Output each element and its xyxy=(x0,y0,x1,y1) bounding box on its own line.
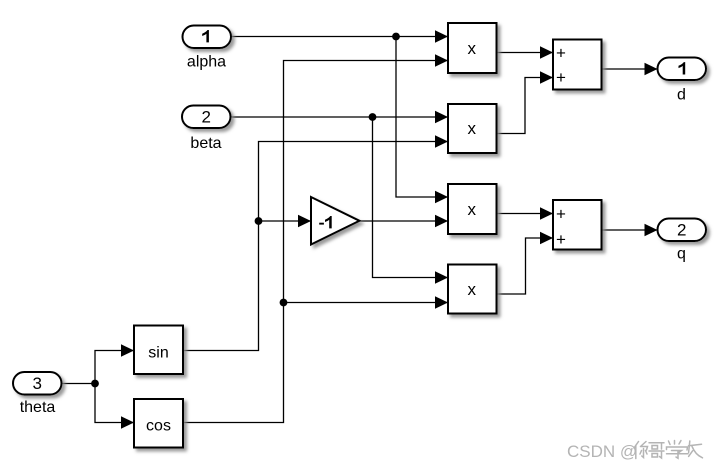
product block P4 xyxy=(448,265,497,314)
outport 1 d xyxy=(658,58,707,104)
sum block S1 xyxy=(553,40,602,90)
svg-text:cos: cos xyxy=(146,417,171,434)
svg-text:d: d xyxy=(677,86,686,103)
watermark glyph ni xyxy=(634,442,648,459)
inport 3 theta xyxy=(13,372,62,416)
svg-text:x: x xyxy=(468,200,477,219)
wire product P4 output to sum S2 input2 xyxy=(497,232,554,294)
sum block S2 xyxy=(553,200,602,250)
wire sum S1 output to outport d xyxy=(602,63,658,75)
product block P2 xyxy=(448,104,497,153)
svg-text:CSDN @: CSDN @ xyxy=(567,442,637,461)
svg-text:+: + xyxy=(556,43,566,62)
wire sin output to product P2 input2 xyxy=(183,135,448,350)
wire theta to junction xyxy=(62,383,95,385)
wire alpha branch to product P3 input1 xyxy=(396,37,448,204)
product block P3 xyxy=(448,184,497,234)
node junction on beta wire xyxy=(369,113,377,121)
node junction on alpha wire xyxy=(392,33,400,41)
inport 1 alpha xyxy=(183,26,232,71)
svg-text:beta: beta xyxy=(190,135,221,152)
node junction on theta wire xyxy=(91,380,99,388)
watermark glyph ge xyxy=(649,443,664,458)
wire cos branch to product P4 input2 xyxy=(284,296,449,308)
svg-text:+: + xyxy=(556,205,566,224)
svg-text:3: 3 xyxy=(32,374,41,393)
wire alpha to product P1 input1 xyxy=(231,30,448,42)
svg-text:x: x xyxy=(468,280,477,299)
node junction on cos wire xyxy=(280,299,288,307)
node junction on sin wire xyxy=(255,217,263,225)
svg-text:2: 2 xyxy=(677,221,686,240)
svg-text:+: + xyxy=(556,230,566,249)
gain block -1 xyxy=(311,197,360,245)
svg-text:theta: theta xyxy=(20,399,56,416)
block sin xyxy=(134,326,183,375)
wire sin branch to gain input xyxy=(259,215,312,227)
wire beta to product P2 input1 xyxy=(230,111,448,123)
wire sum S2 output to outport q xyxy=(602,224,658,236)
outport 2 q xyxy=(658,219,707,263)
svg-text:x: x xyxy=(468,119,477,138)
wire gain output to product P3 input2 xyxy=(360,215,449,227)
wire theta branch to cos input xyxy=(95,384,134,429)
watermark glyph zhang xyxy=(689,441,703,458)
inport 2 beta xyxy=(182,106,231,153)
wire product P3 output to sum S2 input1 xyxy=(497,207,554,219)
product block P1 xyxy=(448,23,497,73)
wire cos output to product P1 input2 xyxy=(183,54,448,422)
block cos xyxy=(134,399,183,448)
svg-text:+: + xyxy=(556,68,566,87)
wire theta branch to sin input xyxy=(95,344,134,383)
svg-text:2: 2 xyxy=(201,107,210,126)
watermark glyph xue xyxy=(667,441,689,459)
wire product P1 output to sum S1 input1 xyxy=(497,46,554,58)
svg-text:sin: sin xyxy=(148,344,168,361)
svg-text:x: x xyxy=(468,39,477,58)
wire product P2 output to sum S1 input2 xyxy=(497,71,554,133)
svg-text:q: q xyxy=(677,246,686,263)
wire beta branch to product P4 input1 xyxy=(373,117,449,284)
svg-text:alpha: alpha xyxy=(187,54,226,71)
